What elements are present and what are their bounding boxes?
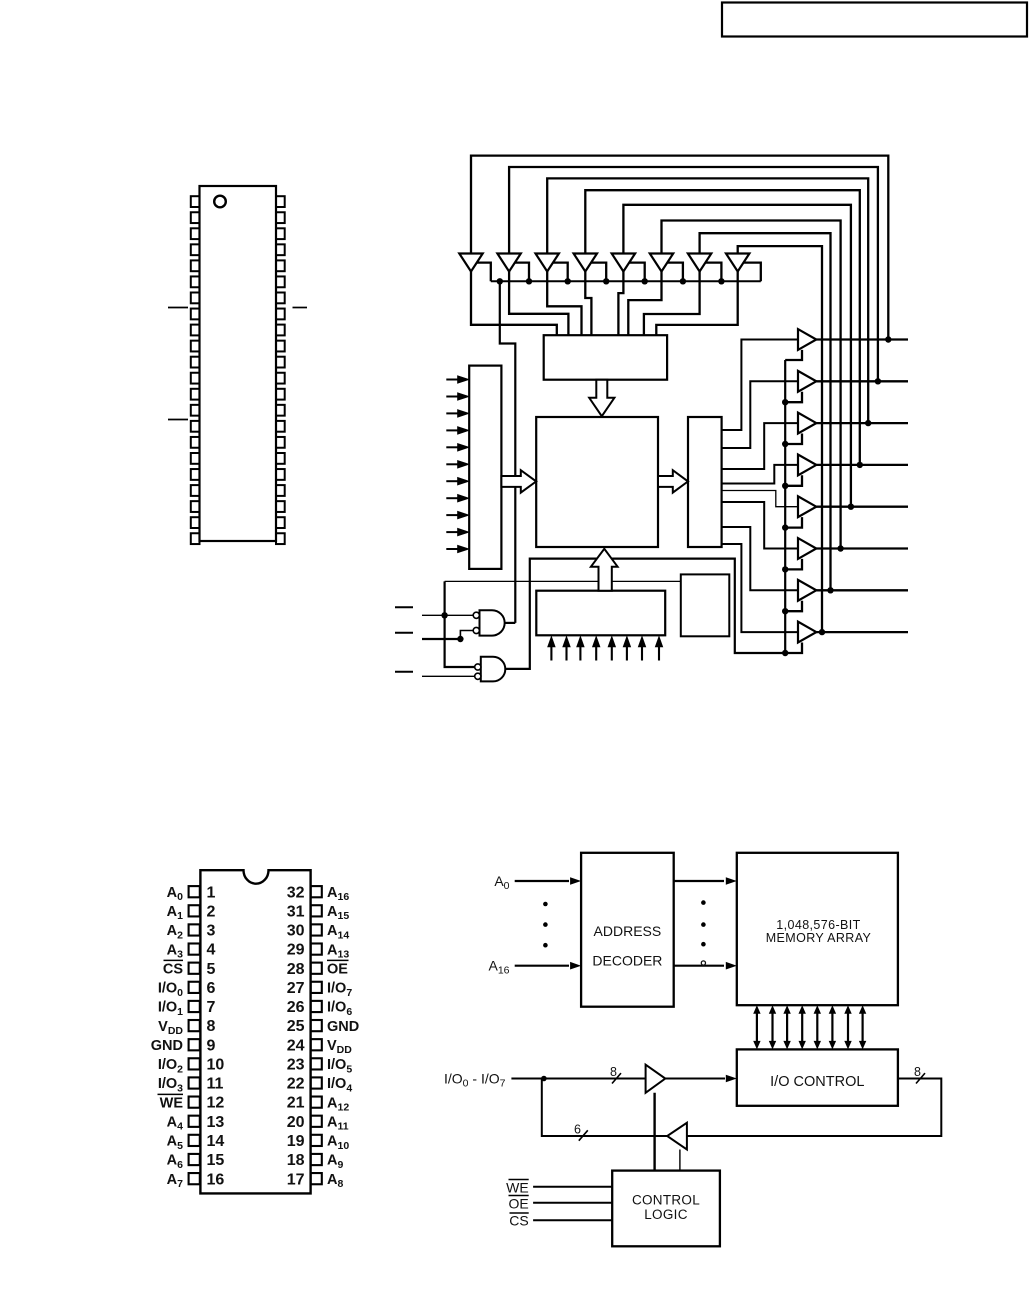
svg-text:I/O6: I/O6 [327,1000,352,1018]
svg-text:I/O0 - I/O7: I/O0 - I/O7 [444,1071,506,1090]
gate G1 body [480,610,505,635]
pin 9 square [189,1039,200,1050]
column I/O to OUT3 wire [722,465,798,484]
I/O control output wire [687,1079,941,1137]
package right pin 33 [276,373,285,384]
column I/O block [688,417,722,547]
OE input wire [533,1202,612,1204]
pin 3 square [189,924,200,935]
junction I/O0 [885,336,891,342]
svg-text:LOGIC: LOGIC [644,1207,688,1222]
package left pin 10 [191,341,200,352]
svg-text:I/O7: I/O7 [327,981,352,999]
package left pin 2 [191,212,200,223]
svg-text:6: 6 [574,1123,581,1137]
junction enable tap 7 [718,278,724,284]
OE input wire [422,675,476,677]
row decoder block [469,366,501,569]
svg-text:VDD: VDD [327,1038,352,1056]
pin 10 square [189,1058,200,1069]
I/O2 pin line [816,422,908,424]
package left pin 21 [191,517,200,528]
I/O6 feedback fan wire [700,233,831,590]
input buffer IN6 triangle [688,254,711,272]
input buffer IN3 triangle [574,254,597,272]
svg-text:23: 23 [287,1056,305,1073]
package right pin 44 [276,196,285,207]
package right pin 29 [276,437,285,448]
junction output enable 2 [782,441,788,447]
junction CS wire [457,636,463,642]
output buffer OUT2 triangle [798,413,816,434]
input enable bus wire [491,280,761,282]
package right pin 36 [276,325,285,336]
array to I/O control bidirectional arrows [756,1012,758,1044]
junction gate riser on enable bus [497,278,503,284]
package left pin 8 [191,309,200,320]
output buffer OUT1 triangle [798,371,816,392]
pin 31 square [311,905,322,916]
pin 14 square [189,1135,200,1146]
I/O6 pin line [816,589,908,591]
svg-text:31: 31 [287,903,305,920]
column address arrow 5 [626,644,628,661]
junction output enable 1 [782,399,788,405]
input buffer IN4 enable tap wire [629,263,645,282]
input buffer triangle [646,1065,666,1093]
CS branch wire to gate G1 [460,631,474,640]
I/O7 feedback fan wire [738,246,822,632]
column address arrow 4 [611,644,613,661]
svg-text:A2: A2 [167,923,183,941]
package right pin 30 [276,421,285,432]
input buffer IN1 triangle [497,254,520,272]
svg-text:24: 24 [287,1037,305,1054]
svg-text:A15: A15 [327,904,349,922]
I/O input wire [511,1078,645,1080]
svg-text:A16: A16 [327,885,349,903]
svg-text:A12: A12 [327,1095,349,1113]
address input arrow 1 [446,396,458,398]
output buffer OUT3 enable stub [785,475,802,486]
column I/O to OUT7 wire [722,544,798,632]
package right pin 43 [276,212,285,223]
column address arrow 0 [550,644,552,661]
control logic block [612,1171,720,1247]
pin 6 square [189,982,200,993]
svg-text:26: 26 [287,999,305,1016]
I/O4 feedback fan wire [623,205,851,507]
pin 30 square [311,924,322,935]
pin 11 square [189,1077,200,1088]
package left pin 13 [191,389,200,400]
svg-text:A5: A5 [167,1134,183,1152]
svg-text:21: 21 [287,1095,305,1112]
junction output enable 3 [782,483,788,489]
svg-text:A14: A14 [327,923,349,941]
package left pin 15 [191,421,200,432]
junction I/O3 [857,462,863,468]
gate G2 body [481,657,506,682]
column decoder block [536,591,665,636]
svg-text:I/O CONTROL: I/O CONTROL [770,1074,864,1090]
svg-text:VDD: VDD [158,1019,183,1037]
svg-text:WE: WE [160,1095,184,1111]
I/O0 feedback fan wire [471,156,888,340]
package right pin 38 [276,293,285,304]
package right pin 40 [276,260,285,271]
svg-text:A9: A9 [327,1153,343,1171]
svg-text:17: 17 [287,1171,305,1188]
svg-text:GND: GND [151,1038,183,1054]
package right pin 34 [276,357,285,368]
svg-text:3: 3 [207,923,216,940]
package right pin 28 [276,453,285,464]
input buffer IN4 triangle [612,254,635,272]
svg-text:25: 25 [287,1018,305,1035]
I/O0 pin line [816,338,908,340]
input buffer IN2 triangle [536,254,559,272]
svg-text:ADDRESS: ADDRESS [594,923,662,939]
pin 28 square [311,963,322,974]
input buffer IN7 triangle [726,254,749,272]
pin 12 square [189,1097,200,1108]
A0 input arrow [515,880,569,882]
svg-text:A7: A7 [167,1172,183,1190]
column I/O to OUT4 wire [722,491,798,507]
control input stub CS [395,632,413,634]
address input arrow 7 [446,497,458,499]
svg-text:19: 19 [287,1133,305,1150]
svg-text:A0: A0 [167,885,183,903]
svg-text:13: 13 [207,1114,225,1131]
bus width slash 8 input [612,1073,621,1083]
I/O3 feedback fan wire [585,190,860,465]
gate G1 input bubble A [473,612,479,618]
svg-text:8: 8 [610,1065,617,1079]
svg-text:A16: A16 [488,958,509,977]
pin 19 square [311,1135,322,1146]
input buffer IN7 output wire [656,272,737,336]
address input arrow 9 [446,531,458,533]
address input arrow 6 [446,480,458,482]
output buffer OUT4 triangle [798,496,816,517]
control logic enable wire A [653,1093,655,1171]
hollow arrow input data control to memory array [589,380,614,417]
package left pin 18 [191,469,200,480]
column address arrow 1 [565,644,567,661]
decoder to array arrow lower [674,965,724,967]
package left pin 19 [191,485,200,496]
svg-text:CONTROL: CONTROL [632,1192,700,1207]
junction I/O1 [875,378,881,384]
svg-text:1,048,576-BIT: 1,048,576-BIT [776,918,860,932]
package right pin 37 [276,309,285,320]
control circuit block [681,574,730,636]
input data control block [544,335,667,380]
svg-text:CS: CS [509,1213,528,1229]
I/O1 feedback fan wire [509,167,878,381]
package right pin 35 [276,341,285,352]
pin 1 square [189,886,200,897]
junction output enable 6 [782,608,788,614]
svg-text:A1: A1 [167,904,183,922]
svg-text:22: 22 [287,1076,305,1093]
package left pin 14 [191,405,200,416]
svg-text:16: 16 [207,1171,225,1188]
empty title box [722,3,1027,37]
column I/O to OUT2 wire [722,423,798,469]
address ellipsis dots [543,902,548,907]
column I/O to OUT5 wire [722,502,798,549]
column I/O to OUT1 wire [722,381,798,448]
CS input wire [422,638,460,640]
pin 22 square [311,1077,322,1088]
WE input wire [533,1186,612,1188]
address input arrow 0 [446,379,458,381]
output buffer triangle [667,1123,687,1150]
package right pin 24 [276,517,285,528]
decoded line ellipsis dots [701,900,706,905]
feedback wire to I/O junction [542,1079,667,1137]
output buffer OUT7 triangle [798,622,816,643]
pin 23 square [311,1058,322,1069]
junction I/O5 [837,545,843,551]
I/O4 pin line [816,506,908,508]
output buffer OUT0 triangle [798,329,816,350]
control input stub WE [395,606,413,608]
pin 5 square [189,963,200,974]
svg-text:A4: A4 [167,1114,183,1132]
gate G2 output wire to column circuits [506,559,786,669]
output buffer OUT5 triangle [798,538,816,559]
package left pin 20 [191,501,200,512]
pin 8 square [189,1020,200,1031]
junction output enable 4 [782,524,788,530]
svg-text:A8: A8 [327,1172,343,1190]
WE control wire to control circuit [445,580,681,582]
column I/O to OUT6 wire [722,527,798,590]
svg-text:I/O5: I/O5 [327,1057,352,1075]
package right pin 42 [276,228,285,239]
gate G1 output riser wire [500,281,516,623]
svg-text:8: 8 [207,1018,216,1035]
svg-text:I/O0: I/O0 [158,981,183,999]
package right pin 26 [276,485,285,496]
junction I/O feedback [541,1076,547,1082]
WE branch wire down to gate G2 [445,581,476,667]
svg-text:CS: CS [163,961,183,977]
output buffer OUT6 triangle [798,580,816,601]
pin 20 square [311,1116,322,1127]
CS input wire [533,1219,612,1221]
svg-text:18: 18 [287,1152,305,1169]
svg-text:A6: A6 [167,1153,183,1171]
junction output enable 5 [782,566,788,572]
output enable bus wire [784,360,786,653]
svg-text:30: 30 [287,923,305,940]
gate G1 input bubble B [473,627,479,633]
input buffer IN5 output wire [628,272,661,336]
pin 4 square [189,943,200,954]
svg-text:I/O1: I/O1 [158,1000,183,1018]
bus width slash 8 output [916,1073,925,1083]
output buffer OUT5 enable stub [785,559,802,570]
input buffer IN1 output wire [509,272,568,336]
pin 24 square [311,1039,322,1050]
input buffer IN0 output wire [471,272,557,336]
column address arrow 6 [641,644,643,661]
package left pin 17 [191,453,200,464]
column address arrow 2 [579,644,581,661]
output buffer OUT0 enable stub [785,350,802,360]
svg-text:DECODER: DECODER [592,952,662,968]
address decoder block [581,853,674,1007]
input buffer IN1 enable tap wire [515,263,529,282]
junction WE wire [441,612,447,618]
pin 7 square [189,1001,200,1012]
package left pin 3 [191,228,200,239]
address input arrow 2 [446,412,458,414]
junction enable tap 3 [565,278,571,284]
package right pin 27 [276,469,285,480]
svg-text:6: 6 [207,980,216,997]
junction enable tap 6 [680,278,686,284]
svg-text:OE: OE [508,1195,528,1211]
pin 16 square [189,1173,200,1184]
address input arrow 5 [446,463,458,465]
hollow arrow memory array to column I/O [658,470,688,492]
svg-text:20: 20 [287,1114,305,1131]
I/O5 feedback fan wire [662,221,841,549]
svg-text:1: 1 [207,884,216,901]
svg-text:A0: A0 [494,873,509,892]
svg-text:I/O2: I/O2 [158,1057,183,1075]
svg-text:MEMORY ARRAY: MEMORY ARRAY [766,931,872,945]
package body outline [200,186,277,541]
DIP package body [200,870,310,1193]
decoder to array arrow upper [674,880,724,882]
column address arrow 7 [658,644,660,661]
input buffer IN5 enable tap wire [667,263,683,282]
package left pin 1 [191,196,200,207]
svg-text:29: 29 [287,942,305,959]
input buffer IN4 output wire [618,272,623,336]
output buffer OUT2 enable stub [785,434,802,445]
control logic enable wire B [679,1150,681,1171]
svg-text:9: 9 [207,1037,216,1054]
package right pin 39 [276,276,285,287]
I/O control block [737,1049,898,1105]
package left pin 6 [191,276,200,287]
pin 21 square [311,1097,322,1108]
package right pin 25 [276,501,285,512]
svg-text:14: 14 [207,1133,225,1150]
input buffer IN2 output wire [547,272,581,336]
junction enable tap 4 [603,278,609,284]
address input arrow 8 [446,514,458,516]
input buffer IN3 enable tap wire [591,263,606,282]
WE input wire [422,614,474,616]
input buffer IN7 enable tap wire [743,263,761,282]
junction I/O4 [848,504,854,510]
gate G1 output wire [505,622,516,624]
junction enable tap 5 [642,278,648,284]
pin 29 square [311,943,322,954]
output buffer OUT4 enable stub [785,517,802,528]
svg-text:8: 8 [914,1065,921,1079]
hollow arrow row decoder to memory array [501,470,536,492]
svg-text:7: 7 [207,999,216,1016]
A16 input arrow [515,965,569,967]
package right pin 31 [276,405,285,416]
package right pin 23 [276,533,285,544]
svg-text:A3: A3 [167,942,183,960]
junction I/O6 [827,587,833,593]
package right pin 41 [276,244,285,255]
I/O5 pin line [816,547,908,549]
I/O2 feedback fan wire [547,178,868,423]
column address arrow 3 [595,644,597,661]
svg-text:5: 5 [207,961,216,978]
output buffer OUT6 enable stub [785,601,802,612]
svg-text:32: 32 [287,884,305,901]
package left pin 22 [191,533,200,544]
address input arrow 4 [446,446,458,448]
package right pin 32 [276,389,285,400]
buffer to I/O control wire [665,1078,725,1080]
output buffer OUT3 triangle [798,455,816,476]
junction I/O7 [819,629,825,635]
input buffer IN3 output wire [585,272,591,336]
control input stub OE [395,671,413,673]
pin 2 square [189,905,200,916]
junction enable bus bottom [782,650,788,656]
svg-text:28: 28 [287,961,305,978]
input buffer IN2 enable tap wire [553,263,568,282]
pin 27 square [311,982,322,993]
input buffer IN6 output wire [644,272,700,336]
address input arrow 10 [446,548,458,550]
pin 32 square [311,886,322,897]
left tick mark lower [168,419,188,421]
svg-text:A13: A13 [327,942,349,960]
package left pin 16 [191,437,200,448]
svg-text:4: 4 [207,942,216,959]
junction I/O2 [865,420,871,426]
pin 25 square [311,1020,322,1031]
bus width slash 6 feedback [579,1130,588,1140]
svg-text:A10: A10 [327,1134,349,1152]
svg-text:10: 10 [207,1056,225,1073]
svg-text:27: 27 [287,980,305,997]
pin 26 square [311,1001,322,1012]
I/O1 pin line [816,380,908,382]
pin 1 index circle [214,196,226,208]
package left pin 9 [191,325,200,336]
input buffer IN5 triangle [650,254,673,272]
memory array block [536,417,658,547]
gate G2 input bubble A [475,664,481,670]
I/O7 pin line [816,631,908,633]
svg-text:A11: A11 [327,1114,349,1132]
junction enable tap 2 [526,278,532,284]
svg-text:OE: OE [327,961,348,977]
package left pin 5 [191,260,200,271]
input buffer IN0 enable tap wire [477,263,491,282]
pin 18 square [311,1154,322,1165]
column I/O to OUT0 wire [722,340,798,431]
